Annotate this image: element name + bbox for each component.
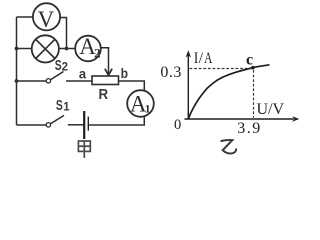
svg-text:/: /: [199, 50, 204, 67]
svg-text:R: R: [99, 86, 109, 103]
svg-text:2: 2: [94, 45, 101, 60]
svg-text:S: S: [55, 57, 62, 74]
svg-text:U/V: U/V: [257, 101, 285, 118]
svg-text:0.3: 0.3: [160, 64, 182, 81]
svg-text:3.9: 3.9: [237, 120, 262, 137]
svg-text:A: A: [204, 50, 213, 67]
svg-text:I: I: [194, 50, 198, 67]
svg-text:S: S: [56, 97, 63, 114]
svg-text:c: c: [246, 52, 253, 69]
svg-text:1: 1: [145, 104, 151, 116]
svg-text:1: 1: [63, 101, 70, 113]
svg-text:b: b: [121, 65, 128, 81]
svg-text:V: V: [38, 7, 55, 32]
svg-text:a: a: [79, 66, 86, 82]
svg-text:2: 2: [62, 61, 68, 73]
svg-text:0: 0: [174, 117, 181, 133]
